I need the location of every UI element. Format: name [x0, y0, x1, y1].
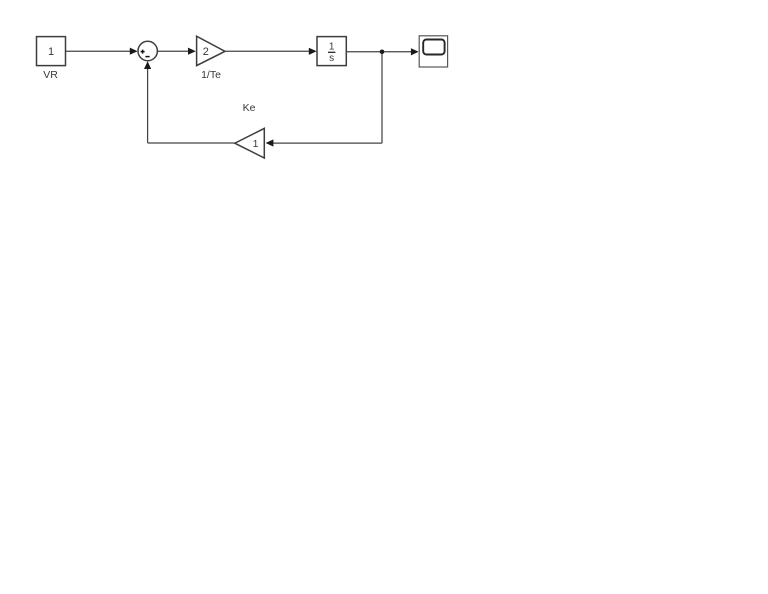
svg-text:1: 1 [48, 46, 54, 58]
svg-text:2: 2 [203, 46, 209, 58]
svg-text:Ke: Ke [243, 102, 256, 114]
svg-text:1: 1 [253, 138, 259, 150]
svg-text:VR: VR [43, 69, 58, 81]
svg-text:1/Te: 1/Te [201, 69, 221, 81]
svg-text:s: s [329, 53, 334, 64]
svg-text:1: 1 [329, 42, 335, 53]
